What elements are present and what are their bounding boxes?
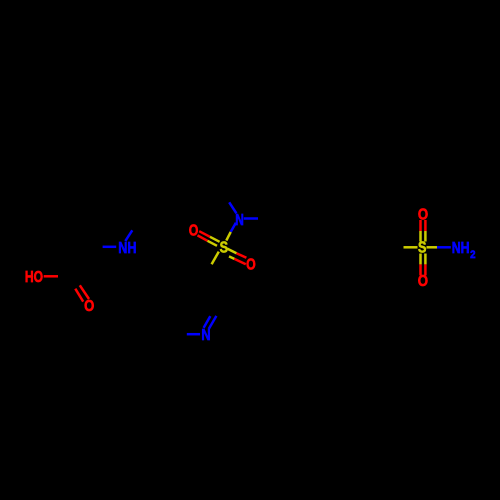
bond S=O1 line1 O half (red) [199,231,210,237]
bond S=O top line2 S half (yellow) [424,231,427,242]
bond CH3-N dimethyl (N half, blue) [229,202,236,213]
bond N=C6 pyridine line1 (N half, blue) [204,316,211,328]
bond S-C3 pyridine (S half, yellow) [212,252,219,265]
bond S-NH2 (N half, blue) [437,246,451,249]
bond C=O carboxyl line b (red) [80,285,89,299]
svg-text:S: S [418,240,426,257]
bond CH3-S right (S half, yellow) [404,246,418,249]
svg-text:O: O [84,298,94,315]
svg-text:N: N [235,212,244,229]
svg-text:2: 2 [470,249,475,261]
bond C-NH (N half, blue) [103,246,117,249]
bond N=C6 pyridine line2 (N half, blue) [209,316,217,329]
bond S=O bottom line2 O half (red) [424,264,427,275]
bond S=O2 line1 O half (red) [237,253,247,258]
bond C=O carboxyl line a (red) [75,289,83,302]
svg-text:O: O [418,207,428,224]
bond S=O top line1 S half (yellow) [419,231,422,242]
svg-text:S: S [220,240,228,257]
bond N-S (S half, yellow) [226,232,230,241]
bond S=O2 line2 O half (red) [234,259,245,264]
svg-text:N: N [201,327,210,344]
svg-text:O: O [246,257,256,274]
svg-text:HO: HO [25,269,43,286]
bond S=O1 line2 S half (yellow) [208,241,218,246]
bond S=O bottom line1 S half (yellow) [419,254,422,265]
bond S=O1 line1 S half (yellow) [210,237,220,242]
svg-text:NH: NH [118,240,136,257]
bond HO-C (O half, red) [44,275,58,278]
svg-text:NH: NH [452,240,470,257]
svg-text:O: O [418,273,428,290]
bond S=O top line1 O half (red) [419,220,422,231]
bond C2-N pyridine (N half, blue) [187,333,200,336]
bond S=O bottom line1 O half (red) [419,264,422,275]
bond N-CH3 right (N half, blue) [244,217,258,220]
bond S=O1 line2 O half (red) [198,235,208,240]
bond S=O bottom line2 S half (yellow) [424,254,427,265]
bond S=O2 line1 S half (yellow) [227,249,236,254]
bond S=O2 line2 S half (yellow) [229,256,234,259]
bond S-NH2 (S half, yellow) [427,246,438,249]
svg-text:O: O [189,223,199,240]
bond S=O top line2 O half (red) [424,220,427,231]
bond NH-C up-right (N half, blue) [125,230,132,241]
bond N-S (N half, blue) [231,223,236,232]
